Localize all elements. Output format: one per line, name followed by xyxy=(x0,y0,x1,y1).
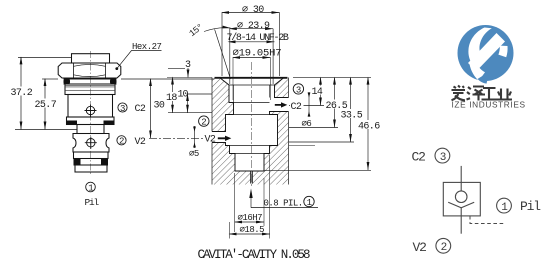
svg-text:10: 10 xyxy=(178,90,189,101)
svg-text:2: 2 xyxy=(119,137,124,147)
dim D6 line with arrows xyxy=(308,92,310,117)
alignment line hex-bottom to cavity xyxy=(121,78,215,80)
svg-text:V2: V2 xyxy=(205,135,216,146)
bore step line 145.5 xyxy=(226,145,278,147)
svg-text:⌀18.5: ⌀18.5 xyxy=(240,225,265,235)
dim 18 extension bottom xyxy=(168,112,212,114)
svg-text:⌀19.05H7: ⌀19.05H7 xyxy=(233,48,282,60)
dim 3 line xyxy=(187,68,189,78)
svg-text:C2: C2 xyxy=(412,150,426,165)
check valve seat xyxy=(448,202,474,208)
svg-text:7/8-14 UNF-2B: 7/8-14 UNF-2B xyxy=(227,32,289,44)
dim 10 line xyxy=(187,94,189,113)
dim 46.6 line xyxy=(367,78,369,170)
svg-text:⌀ 30: ⌀ 30 xyxy=(242,5,264,16)
dim 14 line xyxy=(320,78,322,106)
pilot hole up arrow xyxy=(250,198,252,208)
dim text 25.7 xyxy=(34,99,55,108)
line to V2 xyxy=(460,208,462,234)
svg-text:25.7: 25.7 xyxy=(35,100,57,111)
dim 10 extension top xyxy=(187,93,213,95)
thread top line xyxy=(229,84,275,86)
dim 14 extension bottom xyxy=(289,105,324,107)
Hex.27 leader xyxy=(118,51,162,68)
logo white notch right xyxy=(498,46,507,58)
svg-text:V2: V2 xyxy=(135,137,146,148)
port label 1 ball xyxy=(86,182,96,192)
valve hex nut xyxy=(58,63,121,78)
bore step line 153.5 xyxy=(230,153,270,155)
dim D16H7 extensions xyxy=(235,173,265,232)
dim text 30 (valve to cavity) xyxy=(153,100,166,109)
o-ring band lower xyxy=(74,159,109,166)
svg-text:C2: C2 xyxy=(135,104,146,115)
dim D5 line with arrows xyxy=(194,126,196,148)
dim text 46.6 xyxy=(358,120,380,129)
dim 33.5 extension bottom xyxy=(289,141,354,143)
lower step xyxy=(74,152,109,159)
dim 30 line xyxy=(150,79,152,138)
symbol box xyxy=(443,182,480,216)
svg-text:C2: C2 xyxy=(291,102,302,113)
ball 2 symbol xyxy=(436,238,451,253)
svg-text:Pil: Pil xyxy=(85,197,100,208)
bottom cap xyxy=(75,165,107,172)
svg-text:V2: V2 xyxy=(413,240,427,255)
dim D16H7 line xyxy=(235,221,264,223)
port label C2 cavity xyxy=(290,101,304,110)
svg-text:3: 3 xyxy=(185,60,191,71)
bore step line 114.5 xyxy=(226,114,278,116)
svg-text:1: 1 xyxy=(88,183,93,193)
svg-text:Hex.27: Hex.27 xyxy=(132,42,162,52)
dim D23.9 line xyxy=(230,28,273,30)
dim 37.2 extension bottom xyxy=(15,129,77,131)
dim text 33.5 xyxy=(340,109,362,118)
dim UNF-2B line xyxy=(229,41,275,43)
svg-text:⌀ 23.9: ⌀ 23.9 xyxy=(237,21,270,32)
svg-text:3: 3 xyxy=(296,85,301,95)
port ball 2 cavity xyxy=(199,116,209,126)
logo blue tail xyxy=(478,72,490,84)
svg-text:46.6: 46.6 xyxy=(358,122,380,133)
threaded collar xyxy=(65,84,115,95)
logo white swoosh cut xyxy=(468,28,491,65)
svg-text:15°: 15° xyxy=(188,22,206,39)
dim 26.5 line xyxy=(334,78,336,128)
dim text 37.2 xyxy=(10,87,34,96)
dim 18 top extension xyxy=(167,77,212,79)
dim D23.9 extensions xyxy=(230,29,273,84)
bore step line 102.5 xyxy=(234,102,270,104)
dim 37.2 line xyxy=(20,57,22,129)
svg-text:2: 2 xyxy=(441,242,448,254)
C2 flow arrow xyxy=(275,102,288,107)
cavity block right edge xyxy=(288,78,290,185)
svg-text:⌀5: ⌀5 xyxy=(189,149,199,159)
dim D19.05H7 line xyxy=(233,57,271,59)
hex facet lines xyxy=(74,64,106,78)
svg-text:14: 14 xyxy=(312,87,323,98)
logo white bottom gap xyxy=(470,62,486,81)
chamfer 15deg leader line xyxy=(215,29,231,79)
chamfer 15deg arc xyxy=(204,28,231,32)
dim D30 extensions xyxy=(222,13,280,77)
valve top cap xyxy=(72,54,110,63)
dim text 26.5 xyxy=(325,100,347,109)
dim 25.7 extension top xyxy=(42,78,58,80)
upper body cross-hole port xyxy=(85,105,97,117)
valve centerline xyxy=(90,51,92,176)
svg-text:⌀6: ⌀6 xyxy=(302,119,312,129)
lower body xyxy=(73,134,109,153)
line to C2 xyxy=(460,166,462,191)
svg-text:18: 18 xyxy=(166,93,177,104)
check valve ball xyxy=(455,191,467,203)
logo CJK text 爱泽工业 xyxy=(452,86,513,101)
ball 1 cavity xyxy=(304,196,314,206)
cavity vertical centerline xyxy=(251,62,253,187)
ball 1 symbol xyxy=(497,198,512,213)
dim 26.5 extension bottom xyxy=(289,127,338,129)
dim D19.05H7 extensions xyxy=(233,58,271,101)
pilot dashed line xyxy=(470,216,504,224)
cavity hatched block xyxy=(212,78,289,185)
svg-text:⌀16H7: ⌀16H7 xyxy=(238,213,263,223)
dim D18.5 line xyxy=(230,233,271,235)
svg-text:IZE INDUSTRIES: IZE INDUSTRIES xyxy=(452,100,526,110)
cavity block left edge xyxy=(211,78,213,185)
hex facet arcs xyxy=(74,64,106,76)
dim text 14 xyxy=(311,86,323,95)
svg-text:1: 1 xyxy=(501,202,508,214)
V2 dash-dot centerline to cavity xyxy=(149,137,217,139)
svg-text:3: 3 xyxy=(120,104,125,114)
neck xyxy=(77,125,104,134)
logo blue disc xyxy=(458,25,514,81)
dim D18.5 extensions xyxy=(230,155,270,239)
0.8 PIL leader underline xyxy=(251,207,318,209)
dim 46.6 extension bottom xyxy=(264,170,371,172)
svg-text:1: 1 xyxy=(307,198,312,208)
port ball 3 cavity xyxy=(293,84,303,94)
svg-text:2: 2 xyxy=(201,118,206,128)
dim 3 extension xyxy=(168,67,185,69)
upper body xyxy=(68,95,113,118)
svg-text:Pil: Pil xyxy=(520,199,541,214)
dim text 18 xyxy=(166,92,178,101)
dim 18 line xyxy=(172,78,174,113)
dim 33.5 line xyxy=(350,78,352,142)
lower body cross-hole port xyxy=(85,137,97,149)
right top extension line xyxy=(293,77,371,79)
dim 37.2 extension top xyxy=(18,56,72,58)
cavity top face xyxy=(215,77,288,79)
dim text 10 xyxy=(177,89,187,98)
svg-text:3: 3 xyxy=(440,152,447,164)
V2 flow arrow xyxy=(218,136,232,141)
ball 3 symbol xyxy=(435,148,450,163)
flange xyxy=(67,117,115,125)
svg-text:33.5: 33.5 xyxy=(341,111,363,122)
thread root lines xyxy=(234,85,270,103)
svg-text:37.2: 37.2 xyxy=(11,88,33,99)
dim 25.7 line xyxy=(44,79,46,130)
step extension line right xyxy=(289,145,315,147)
svg-text:30: 30 xyxy=(154,101,165,112)
logo white diagonal cut xyxy=(468,33,505,71)
o-ring band upper xyxy=(64,79,117,84)
svg-text:CAVITA'-CAVITY N.058: CAVITA'-CAVITY N.058 xyxy=(198,248,310,262)
cavity bore outline xyxy=(212,78,289,184)
svg-text:0.8 PIL.: 0.8 PIL. xyxy=(264,198,303,208)
port label V2 with ball 2 xyxy=(117,136,126,145)
port label V2 cavity xyxy=(204,133,217,142)
dim D30 line xyxy=(222,12,280,14)
port label C2 with ball 3 xyxy=(118,103,127,112)
